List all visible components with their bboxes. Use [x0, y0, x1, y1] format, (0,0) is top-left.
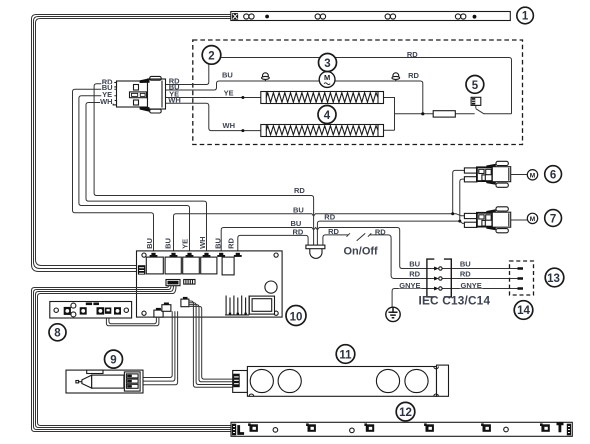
svg-text:WH: WH — [100, 97, 113, 106]
svg-text:11: 11 — [339, 349, 352, 361]
svg-text:RD: RD — [294, 186, 305, 195]
svg-text:YE: YE — [181, 239, 190, 249]
svg-text:7: 7 — [550, 213, 556, 225]
svg-text:6: 6 — [550, 170, 556, 182]
svg-text:M: M — [530, 172, 535, 179]
svg-text:9: 9 — [110, 355, 116, 367]
svg-text:IEC C13/C14: IEC C13/C14 — [419, 294, 491, 308]
svg-text:RD: RD — [293, 227, 304, 236]
svg-text:BU: BU — [293, 206, 304, 215]
svg-text:4: 4 — [324, 110, 331, 122]
svg-text:RD: RD — [460, 270, 471, 279]
svg-text:BU: BU — [222, 71, 233, 80]
svg-text:RD: RD — [328, 227, 339, 236]
svg-text:WH: WH — [168, 96, 181, 105]
svg-text:5: 5 — [472, 80, 479, 92]
svg-text:GNYE: GNYE — [399, 281, 420, 290]
svg-text:8: 8 — [54, 328, 61, 340]
svg-text:13: 13 — [547, 273, 560, 285]
svg-text:2: 2 — [208, 50, 214, 62]
svg-text:RD: RD — [324, 213, 335, 222]
svg-text:RD: RD — [407, 50, 418, 59]
svg-text:BU: BU — [409, 260, 420, 269]
svg-text:RD: RD — [375, 227, 386, 236]
svg-text:GNYE: GNYE — [461, 281, 482, 290]
svg-text:10: 10 — [290, 311, 303, 323]
svg-text:WH: WH — [223, 121, 236, 130]
svg-text:BU: BU — [460, 260, 471, 269]
svg-text:3: 3 — [324, 58, 330, 70]
svg-text:RD: RD — [409, 270, 420, 279]
svg-text:12: 12 — [399, 407, 412, 419]
svg-text:YE: YE — [224, 89, 234, 98]
svg-text:14: 14 — [517, 305, 530, 317]
svg-text:M: M — [530, 216, 535, 223]
svg-text:M: M — [324, 73, 330, 82]
svg-text:RD: RD — [408, 71, 419, 80]
svg-text:BU: BU — [214, 238, 223, 249]
svg-text:1: 1 — [522, 11, 529, 23]
svg-text:RD: RD — [227, 237, 236, 248]
svg-text:WH: WH — [198, 236, 207, 249]
svg-text:BU: BU — [164, 238, 173, 249]
svg-text:BU: BU — [145, 238, 154, 249]
svg-text:On/Off: On/Off — [344, 245, 379, 257]
